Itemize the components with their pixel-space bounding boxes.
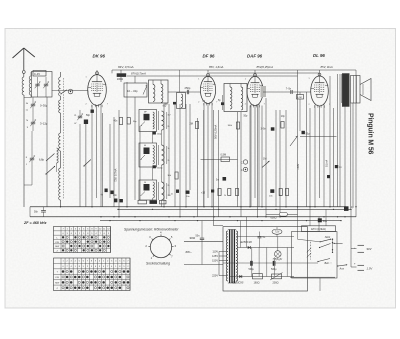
- oscillator section 1 box: [139, 110, 157, 132]
- svg-text:ZF = 468 kHz: ZF = 468 kHz: [23, 221, 47, 225]
- bus bottom 3: [30, 216, 356, 218]
- vertical wires mid: [203, 110, 205, 207]
- wire: [79, 131, 81, 207]
- wire right drop: [350, 209, 352, 267]
- phono jack C1: [243, 160, 247, 164]
- wire contact to right: [334, 242, 343, 244]
- mains taps: [219, 251, 227, 253]
- wavechange switch: [61, 90, 67, 94]
- DL96 pins: [314, 105, 316, 207]
- svg-text:50n: 50n: [34, 210, 39, 213]
- svg-text:Betr. ↑: Betr. ↑: [325, 262, 332, 265]
- phono jack C2: [243, 167, 247, 171]
- switch link dashed: [309, 242, 311, 260]
- trimmer 3-12p: [31, 121, 35, 123]
- ETO box: [302, 226, 336, 232]
- res 1M right: [281, 122, 284, 129]
- bottom res row: [218, 189, 221, 196]
- meter lamp: [275, 251, 282, 258]
- svg-text:2: 2: [198, 102, 199, 104]
- res 180k: [236, 122, 239, 129]
- svg-text:Pinguin M 56: Pinguin M 56: [366, 113, 373, 155]
- svg-text:50n: 50n: [196, 234, 201, 237]
- oscillator coil 2: [162, 145, 165, 165]
- IF transformer 2: [224, 84, 247, 112]
- DK96 pins: [91, 105, 93, 207]
- wire antenna down: [23, 95, 25, 207]
- DF96 pins: [203, 103, 205, 207]
- switch table 1: [54, 227, 111, 253]
- wire y159: [201, 158, 238, 160]
- svg-text:7,5(3μ)V: 7,5(3μ)V: [273, 258, 283, 261]
- pot 200R: [272, 274, 282, 279]
- wire branch: [24, 97, 32, 99]
- svg-text:Netz: Netz: [325, 235, 331, 239]
- rect diode E250C85: [229, 276, 294, 278]
- dial lamp 7.5V: [272, 229, 282, 234]
- svg-text:C: C: [241, 168, 243, 172]
- terminal 1.5V: [358, 264, 365, 266]
- padder 10-43p: [124, 83, 147, 97]
- wire: [46, 97, 48, 207]
- band filter box: [32, 72, 53, 98]
- DAF96 pins: [250, 105, 252, 208]
- svg-text:1: 1: [309, 78, 310, 80]
- svg-text:150V: 150V: [212, 260, 218, 263]
- svg-text:C: C: [241, 161, 243, 165]
- coupling coil L1b: [29, 76, 31, 95]
- wire to DK96 grid: [62, 90, 88, 92]
- trimmer block 21/07: [78, 115, 82, 117]
- pot 1M: [262, 161, 270, 168]
- svg-text:125V: 125V: [212, 255, 218, 258]
- svg-text:600Ω: 600Ω: [271, 217, 277, 220]
- svg-text:DK 96: DK 96: [93, 54, 106, 59]
- trimmer 6.8p: [30, 157, 34, 159]
- grid coil: [181, 94, 183, 108]
- bus 87V: [127, 75, 298, 77]
- bus bottom 1: [30, 206, 346, 208]
- coil L4: [59, 133, 61, 151]
- psu inner rail: [237, 236, 294, 238]
- oscillator coil 3: [162, 182, 165, 200]
- svg-text:1: 1: [245, 78, 246, 80]
- svg-text:7: 7: [107, 103, 108, 105]
- res 160R: [253, 274, 263, 279]
- svg-text:250p: 250p: [185, 86, 191, 90]
- antenna coil L1: [22, 77, 24, 95]
- trimmer C1: [35, 83, 39, 85]
- antenna: [13, 48, 24, 58]
- svg-text:50V 0,25mA: 50V 0,25mA: [214, 124, 218, 139]
- svg-text:7: 7: [264, 104, 265, 106]
- cap 500u a: [250, 261, 252, 266]
- switch S2: [84, 160, 91, 167]
- cap small: [327, 175, 330, 178]
- svg-text:6W~: 6W~: [186, 250, 193, 254]
- coil L5: [59, 168, 61, 200]
- cap 50u: [318, 218, 322, 222]
- svg-text:220V: 220V: [212, 275, 218, 278]
- oscillator coil 1: [162, 111, 164, 130]
- bus 84V: [112, 69, 356, 71]
- svg-text:2k: 2k: [224, 195, 226, 197]
- svg-text:2: 2: [309, 104, 310, 106]
- PSU outer box: [223, 227, 308, 291]
- cap 1n: [176, 190, 179, 193]
- terminal 90V: [358, 244, 365, 246]
- grid coil box: [177, 93, 186, 109]
- svg-text:72V, 0,7mA: 72V, 0,7mA: [113, 168, 117, 182]
- svg-text:50μ: 50μ: [323, 220, 328, 223]
- svg-text:3–12μ: 3–12μ: [40, 122, 48, 126]
- svg-text:85V(0,35)mA: 85V(0,35)mA: [257, 65, 274, 69]
- res mid: [175, 172, 178, 179]
- svg-text:4μ: 4μ: [351, 205, 354, 209]
- svg-text:DL 96: DL 96: [313, 53, 325, 58]
- svg-text:Spannungsmessen: Röhrenvoltmet: Spannungsmessen: Röhrenvoltmeter: [124, 227, 179, 231]
- svg-text:+15: +15: [201, 192, 206, 195]
- tube DL96: [311, 76, 329, 106]
- oscillator section 3 box: [139, 180, 157, 200]
- trimmer 0-30p: [31, 103, 35, 105]
- coil L6: [57, 148, 59, 163]
- svg-text:Aus: Aus: [339, 266, 345, 270]
- tuning coil L2: [59, 77, 61, 96]
- svg-text:500μ: 500μ: [271, 268, 277, 271]
- wire: [179, 70, 181, 92]
- psu feed wires: [309, 207, 311, 226]
- output transformer: [342, 74, 349, 107]
- cap 1500p: [153, 165, 156, 168]
- bus 85V b: [209, 72, 320, 74]
- bus stub into psu: [214, 225, 224, 227]
- cap 1n r: [335, 165, 338, 168]
- svg-text:6,8p: 6,8p: [39, 158, 45, 162]
- power transformer T1: [229, 230, 231, 284]
- svg-text:50p: 50p: [86, 114, 91, 117]
- pot arrow: [290, 136, 298, 146]
- psu bottom rail: [290, 276, 335, 278]
- PSU switch box: [292, 232, 338, 279]
- svg-text:7,5V: 7,5V: [275, 232, 280, 234]
- coil L3: [59, 100, 61, 113]
- svg-text:0–30μ: 0–30μ: [40, 104, 48, 108]
- speaker: [351, 76, 361, 104]
- coil core: [60, 96, 62, 100]
- svg-text:1500p: 1500p: [157, 167, 164, 169]
- svg-text:50μ: 50μ: [306, 133, 311, 136]
- tube socket diagram: [150, 236, 171, 257]
- svg-text:40: 40: [144, 145, 146, 147]
- svg-text:0,1mA: 0,1mA: [326, 159, 329, 167]
- caps 4n 40n: [105, 189, 108, 193]
- tube DF96: [200, 76, 215, 103]
- svg-text:84V, 0,5mA: 84V, 0,5mA: [118, 65, 133, 69]
- cap 500u b: [273, 261, 275, 266]
- cap 5u row: [211, 190, 214, 193]
- trimmer C2: [44, 83, 48, 85]
- IF transformer 1: [149, 80, 169, 103]
- svg-text:2: 2: [86, 103, 87, 105]
- cap 50p r: [302, 131, 305, 134]
- res 0.2M: [297, 95, 304, 100]
- right verticals: [306, 92, 308, 207]
- svg-text:E250C85: E250C85: [233, 280, 244, 284]
- svg-text:0,2M: 0,2M: [297, 97, 302, 99]
- svg-text:10 – 43p: 10 – 43p: [127, 89, 138, 93]
- switch box bottom wire: [319, 278, 321, 291]
- cap 5n: [223, 177, 227, 181]
- resistor 2M: [195, 122, 198, 129]
- svg-text:Sockelschaltung: Sockelschaltung: [146, 261, 170, 265]
- cap 5n psu: [258, 236, 262, 238]
- resistor 40n: [119, 118, 122, 125]
- svg-text:500μ: 500μ: [249, 268, 255, 271]
- svg-text:3–5n: 3–5n: [261, 127, 267, 130]
- wire DAF-DL: [263, 91, 311, 93]
- bus bottom 4: [100, 220, 341, 222]
- switch table 2: [54, 258, 131, 291]
- wire: [85, 124, 87, 207]
- junction dots: [60, 206, 61, 207]
- tube DAF96: [247, 76, 263, 105]
- band switch S1: [46, 167, 55, 175]
- cap 100n: [270, 189, 274, 193]
- oscillator section 2 box: [139, 143, 157, 167]
- wire y136: [300, 136, 337, 138]
- cap 10n: [186, 191, 190, 194]
- DAF96 shade: [261, 86, 267, 97]
- filter components row: [114, 199, 117, 203]
- svg-text:160Ω: 160Ω: [254, 281, 260, 284]
- svg-text:1M: 1M: [263, 158, 266, 161]
- svg-text:2: 2: [245, 104, 246, 106]
- svg-text:0–45: 0–45: [34, 72, 40, 76]
- vertical wires mid-left: [102, 113, 104, 207]
- osc wires: [152, 132, 154, 144]
- bus bottom 2: [118, 208, 351, 210]
- svg-text:87V(0,7)mA: 87V(0,7)mA: [131, 72, 146, 76]
- cap 100p: [153, 132, 156, 135]
- svg-text:DAF 96: DAF 96: [247, 54, 263, 59]
- svg-text:100Ω: 100Ω: [117, 77, 123, 81]
- wire IFT1-DF96: [168, 91, 201, 93]
- res 600R: [266, 213, 298, 215]
- coil shield: [62, 78, 64, 199]
- svg-text:200Ω: 200Ω: [273, 281, 279, 284]
- wire: [31, 131, 33, 150]
- svg-text:DF 96: DF 96: [203, 54, 216, 59]
- svg-text:ETO (0,9kΩ): ETO (0,9kΩ): [311, 227, 326, 231]
- svg-text:2M: 2M: [190, 123, 193, 126]
- svg-text:110V: 110V: [212, 251, 218, 254]
- svg-text:~43V: ~43V: [296, 164, 300, 170]
- svg-text:1: 1: [198, 78, 199, 80]
- svg-text:0,5M: 0,5M: [221, 153, 227, 156]
- res 30p left: [127, 118, 130, 125]
- contact column: [332, 239, 333, 240]
- resistor 100R: [117, 73, 127, 77]
- cap 4u: [344, 206, 349, 211]
- svg-text:85V, 9mA: 85V, 9mA: [321, 65, 333, 69]
- svg-text:50: 50: [144, 182, 146, 184]
- grid cap G: [68, 89, 73, 94]
- tube DK96: [88, 75, 107, 106]
- svg-text:85V, 1,6mA: 85V, 1,6mA: [209, 65, 224, 69]
- bus left end: [29, 207, 31, 217]
- cap 50p: [91, 110, 94, 113]
- svg-text:1: 1: [86, 77, 87, 79]
- psu verticals: [240, 221, 242, 248]
